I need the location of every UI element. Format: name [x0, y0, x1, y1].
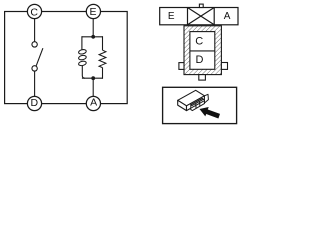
node junction bottom [91, 76, 95, 80]
terminal D [27, 96, 41, 110]
body right lug [221, 63, 227, 70]
pin cell divider right [213, 8, 215, 25]
resistor R1 zigzag [99, 50, 106, 67]
switch S (open) upper contact [32, 42, 37, 47]
switch blade [36, 48, 43, 66]
node junction top [91, 35, 95, 39]
connector 3D terminal block [191, 99, 205, 111]
wire: coil branch bottom lead [82, 66, 85, 79]
inductor L1 coil loops [78, 49, 87, 66]
connector body hatched shell [184, 26, 221, 75]
wire: top rail of parallel branch [82, 36, 103, 38]
terminal E [86, 4, 100, 18]
svg-text:A: A [224, 11, 231, 22]
switch lower contact [32, 66, 37, 71]
svg-text:A: A [90, 97, 97, 109]
connector 3D mating rim [204, 94, 208, 103]
svg-text:D: D [196, 54, 204, 66]
blocked cell X [188, 8, 215, 25]
svg-text:C: C [195, 36, 203, 48]
wire: bottom rail of parallel branch [82, 77, 103, 79]
body bottom lug [199, 75, 206, 81]
wire: resistor branch top lead [102, 36, 104, 50]
wire: schematic outer loop border [5, 12, 128, 104]
connector top tab [199, 4, 203, 7]
connector 3D front face [187, 96, 205, 111]
connector 3D left face [178, 100, 187, 110]
wire: node down to A [92, 78, 94, 96]
pin cell divider left [187, 8, 189, 25]
wire: coil branch top lead [81, 36, 83, 50]
wire: E down to node [92, 19, 94, 37]
connector 3D top face [178, 90, 205, 106]
pointer arrow [200, 107, 221, 119]
terminal C [27, 4, 41, 18]
connector pin-row outline [160, 8, 238, 25]
wire: switch to D [34, 71, 36, 96]
cavity divider [190, 50, 215, 52]
wire: C to switch [34, 19, 36, 42]
svg-text:C: C [30, 6, 38, 18]
svg-text:D: D [31, 97, 39, 109]
callout frame [163, 87, 237, 123]
svg-text:E: E [89, 6, 96, 18]
svg-text:E: E [168, 11, 175, 22]
wire: resistor branch bottom lead [102, 68, 104, 79]
terminal A [86, 96, 100, 110]
body left lug [179, 63, 184, 70]
connector body inner cavity [190, 32, 215, 70]
